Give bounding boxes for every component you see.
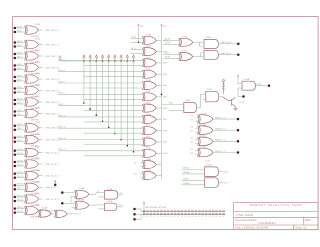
svg-text:BNK_SEL0_X: BNK_SEL0_X <box>45 30 59 32</box>
wire inputs IC7A <box>163 39 179 41</box>
wire grid row 10B <box>84 110 143 112</box>
svg-text:E0: E0 <box>191 120 193 122</box>
svg-text:IC1A: IC1A <box>35 23 40 26</box>
and gate IC8B <box>204 50 218 59</box>
wire grid row 11A <box>58 116 143 118</box>
and gate IC8A <box>204 36 218 48</box>
wire grid column 1 <box>83 61 85 103</box>
svg-text:IC4D: IC4D <box>35 205 40 207</box>
resistor R15 <box>192 211 194 212</box>
junction rail dot 2 <box>89 60 91 62</box>
svg-text:IC7A: IC7A <box>182 35 187 38</box>
wire output IC10A <box>255 85 268 87</box>
wire output IC11D <box>213 152 237 154</box>
wire grid row 6B <box>84 87 143 89</box>
wire input A of IC3C <box>16 150 25 152</box>
resistor R9 <box>171 211 173 212</box>
wire inputs IC12A <box>182 169 205 171</box>
junction rail dot 1 <box>83 60 85 62</box>
wire input B of IC4C <box>16 200 25 202</box>
svg-text:Sheet: 1/1: Sheet: 1/1 <box>295 227 307 230</box>
junction grid dot 6 <box>114 133 116 135</box>
xor gate IC2B <box>25 85 41 99</box>
wire input B of IC3D <box>16 165 25 167</box>
svg-text:RN1 RESNET 4K7 SEL: RN1 RESNET 4K7 SEL <box>145 207 167 209</box>
wire jog vertical <box>199 42 201 46</box>
wire G2 out <box>117 206 123 208</box>
wire G16 to E1 <box>39 210 40 212</box>
svg-text:74_08: 74_08 <box>76 199 81 201</box>
svg-text:IC12A: IC12A <box>206 164 212 167</box>
node pad B7 <box>14 103 16 105</box>
svg-text:ADR15: ADR15 <box>17 206 24 209</box>
wire grid row 7A <box>58 93 143 95</box>
svg-text:ADR14: ADR14 <box>17 194 24 197</box>
svg-text:IC4B: IC4B <box>35 181 40 183</box>
wire inputs IC11A <box>195 116 198 118</box>
wire output IC5H <box>156 118 161 120</box>
wire grid row 16B <box>84 144 143 146</box>
wire grid column 7 <box>120 61 122 140</box>
wire input B of IC3C <box>16 154 25 156</box>
xor gate IC1A <box>25 23 41 38</box>
label pin 3 <box>150 215 151 218</box>
node pad B10 <box>14 141 16 143</box>
svg-text:SEL11: SEL11 <box>17 164 24 166</box>
svg-text:IC5G: IC5G <box>146 103 151 105</box>
svg-text:IC5I: IC5I <box>146 125 150 127</box>
wire F2 to G2 second <box>98 208 105 210</box>
wire output IC5F <box>156 96 161 98</box>
svg-text:IC2C: IC2C <box>35 96 40 98</box>
svg-text:BNK_SL11_X: BNK_SL11_X <box>45 164 59 166</box>
power VCC stub connector <box>143 202 145 207</box>
svg-text:ROW_3: ROW_3 <box>58 70 64 72</box>
wire F2 inputs <box>72 202 75 204</box>
and gate G1 <box>104 188 117 199</box>
wire input A of IC2A <box>16 76 25 78</box>
svg-text:E1: E1 <box>191 131 193 133</box>
svg-text:BNK_SL13_X: BNK_SL13_X <box>45 187 59 189</box>
xor gate IC11B <box>198 124 213 134</box>
svg-text:ADR13: ADR13 <box>17 183 24 186</box>
wire VCC rail <box>60 60 136 62</box>
svg-text:FIRE: FIRE <box>257 84 262 86</box>
node pad A7 <box>14 99 16 101</box>
wire bus upper <box>141 210 225 212</box>
svg-text:ROW_7: ROW_7 <box>58 93 64 95</box>
xor gate IC4D <box>25 205 41 219</box>
svg-text:C-23-4B-05-B-1: C-23-4B-05-B-1 <box>258 222 276 225</box>
wire output IC5I <box>156 130 161 132</box>
resistor R17 <box>198 211 200 212</box>
or gate IC6B <box>142 170 156 180</box>
svg-text:IC2A: IC2A <box>35 72 40 75</box>
xor gate IC3C <box>25 147 41 161</box>
wire input B of IC2C <box>16 103 25 105</box>
resistor R20 <box>209 211 211 212</box>
xor gate IC4A <box>25 169 41 184</box>
wire output of IC2C <box>39 101 43 103</box>
svg-text:Document Number:: Document Number: <box>236 219 258 222</box>
wire grid row 4B <box>84 76 143 78</box>
node pad RES0 <box>237 118 239 120</box>
node pad RES2 <box>237 140 239 142</box>
svg-text:SEL15: SEL15 <box>17 211 24 213</box>
label pin 8 <box>167 215 168 218</box>
svg-text:74HC86N: 74HC86N <box>30 217 39 219</box>
node pad F1A <box>61 192 63 194</box>
svg-text:RESULT_2: RESULT_2 <box>215 140 226 142</box>
wire output of IC1D <box>39 67 43 69</box>
wire output IC5D <box>156 73 161 75</box>
svg-text:MEMORY SELECTING TERM: MEMORY SELECTING TERM <box>249 203 302 207</box>
wire input B of IC2D <box>16 115 25 117</box>
svg-text:ADR2: ADR2 <box>17 51 23 54</box>
svg-text:RESULT_1: RESULT_1 <box>215 129 226 131</box>
or gate F2 <box>75 200 89 210</box>
wire jog vertical 2 <box>200 53 202 57</box>
svg-text:WENA1: WENA1 <box>183 182 190 185</box>
resistor R3 <box>150 211 152 212</box>
power VCC symbol right <box>161 24 163 29</box>
svg-text:WSEL1: WSEL1 <box>183 179 189 181</box>
svg-text:ADR9: ADR9 <box>17 135 23 138</box>
node pad A6 <box>14 87 16 89</box>
wire grid column 2 <box>89 61 91 109</box>
svg-text:IC13A: IC13A <box>42 207 48 210</box>
node pad B4 <box>14 68 16 70</box>
resistor R1 <box>143 211 145 212</box>
label pin 21 <box>212 215 213 218</box>
svg-text:ADR8: ADR8 <box>17 123 23 126</box>
wire grid row 17A <box>58 150 143 152</box>
node pad B5 <box>14 80 16 82</box>
svg-text:BNK_SEL3_X: BNK_SEL3_X <box>45 67 59 69</box>
wire stub above P17 <box>54 180 56 183</box>
wire output of IC4A <box>39 175 43 177</box>
svg-text:T1 G4: T1 G4 <box>238 102 244 104</box>
resistor R21 <box>212 211 214 212</box>
wire output IC8B to pad <box>218 54 237 56</box>
svg-text:IC6B: IC6B <box>146 170 151 172</box>
xor gate IC11D <box>198 147 213 157</box>
or gate IC5D <box>142 69 156 79</box>
node pad CN_C <box>133 218 135 220</box>
junction grid dot 7 <box>120 139 122 141</box>
junction grid dot 9 <box>133 151 135 153</box>
resistor R18 <box>202 211 204 212</box>
wire inputs IC11C <box>195 138 198 140</box>
svg-text:IC3C: IC3C <box>35 147 40 149</box>
svg-text:IC5J: IC5J <box>146 136 150 138</box>
label pin 12 <box>181 215 182 218</box>
wire input IC10A <box>238 83 242 85</box>
node pad B16 <box>14 212 16 214</box>
or gate IC5K <box>142 148 156 158</box>
or gate IC6A <box>142 158 156 169</box>
power VCC stub 8 <box>126 55 129 61</box>
wire output IC11A <box>213 118 237 120</box>
wire inputs IC11D <box>195 150 198 152</box>
wire output IC5B <box>156 51 161 53</box>
wire output IC11C <box>213 140 237 142</box>
svg-text:MATCH_A: MATCH_A <box>221 41 231 44</box>
node pad RES3 <box>237 151 239 153</box>
junction rail dot 5 <box>108 60 110 62</box>
wire output IC5J <box>156 141 161 143</box>
wire output IC12B <box>218 182 223 184</box>
wire grid row 2B <box>84 64 143 66</box>
node pad A4 <box>14 64 16 66</box>
node pad A2 <box>14 41 16 43</box>
wire G1 out <box>118 194 123 196</box>
svg-text:MX10: MX10 <box>163 153 169 155</box>
svg-text:IC8A: IC8A <box>206 36 211 39</box>
xor gate IC3A <box>25 121 41 136</box>
wire grid row 8B <box>84 98 143 100</box>
svg-text:ROW_9: ROW_9 <box>58 104 64 106</box>
label pin 1 <box>143 215 144 218</box>
svg-text:ADR5: ADR5 <box>17 86 23 89</box>
junction rail dot 8 <box>127 60 129 62</box>
svg-text:IC15B: IC15B <box>107 201 113 203</box>
node pad A16 <box>14 208 16 210</box>
wire output of IC4D <box>39 210 43 212</box>
resistor R16 <box>195 211 197 212</box>
svg-text:IC15A: IC15A <box>107 188 113 191</box>
junction grid dot 4 <box>102 121 104 123</box>
wire output of IC4B <box>39 186 43 188</box>
wire grid row 5A <box>58 82 143 84</box>
and gate IC9B <box>206 89 219 102</box>
wire output IC6A <box>156 164 161 166</box>
wire pads to bus <box>136 208 141 210</box>
or gate IC5C <box>142 57 156 67</box>
wire output of IC2B <box>39 90 43 92</box>
power VCC stub 1 <box>83 55 86 61</box>
title block <box>234 203 318 230</box>
svg-text:D1: D1 <box>191 127 193 129</box>
wire IC7A to IC8A <box>193 41 203 43</box>
svg-text:BNK_SL14_X: BNK_SL14_X <box>45 199 59 201</box>
power VCC above IC10A input <box>237 75 239 80</box>
node pad B3 <box>14 57 16 59</box>
node pad FIRE <box>268 85 270 87</box>
svg-text:IC11A: IC11A <box>201 112 207 115</box>
wire input B of IC1A <box>16 31 25 33</box>
svg-text:ROW_5: ROW_5 <box>58 81 64 83</box>
resistor R8 <box>167 211 169 212</box>
wire F1 to G1 second <box>98 196 104 198</box>
svg-text:IC5B: IC5B <box>146 46 151 48</box>
node pad B1 <box>14 31 16 33</box>
power VCC stub 2 <box>89 55 92 61</box>
label pin 6 <box>160 215 161 218</box>
svg-text:E2: E2 <box>191 142 193 144</box>
wire input A of IC2B <box>16 88 25 90</box>
wire bus lower <box>143 213 225 215</box>
node pad A10 <box>14 137 16 139</box>
resistor R2 <box>147 211 149 212</box>
svg-text:ADR11: ADR11 <box>17 159 24 162</box>
and gate IC10A <box>242 78 255 90</box>
or gate F1 <box>75 187 89 198</box>
label pin 7 <box>164 215 165 218</box>
antenna flag symbol <box>222 80 225 95</box>
resistor R19 <box>205 211 207 212</box>
xor gate IC1B <box>25 39 41 53</box>
svg-text:IC9B: IC9B <box>207 89 212 91</box>
svg-text:TITLE: THING: TITLE: THING <box>236 213 253 217</box>
node pad F1B <box>61 202 63 204</box>
wire output IC5C <box>156 62 161 64</box>
svg-text:IC6A: IC6A <box>146 158 151 161</box>
xor gate E1 <box>38 207 51 218</box>
wire output of IC1A <box>39 29 43 31</box>
svg-text:IC11C: IC11C <box>201 136 207 138</box>
svg-text:IC11D: IC11D <box>201 147 207 149</box>
svg-text:MATCH_B: MATCH_B <box>221 52 231 55</box>
node pad B11 <box>14 154 16 156</box>
svg-text:SUM_LO: SUM_LO <box>73 214 82 216</box>
or gate IC5F <box>142 91 156 101</box>
svg-text:IC3A: IC3A <box>35 121 40 124</box>
wire input IC5A <box>131 37 144 39</box>
svg-text:SEL13: SEL13 <box>17 188 24 190</box>
wire input A of IC1B <box>16 42 25 44</box>
wire input IC9B second <box>203 98 206 100</box>
xor gate IC2C <box>25 96 41 110</box>
power VCC stub 9 <box>132 55 135 61</box>
wire input B of IC4D <box>16 212 25 214</box>
label pin 17 <box>198 215 199 218</box>
wire grid column 3 <box>95 61 97 115</box>
svg-text:ROW_13: ROW_13 <box>58 127 65 129</box>
svg-text:WENA0: WENA0 <box>183 171 190 174</box>
node pad B2 <box>14 45 16 47</box>
svg-text:IC10A: IC10A <box>244 78 250 81</box>
wire output of IC1B <box>39 44 43 46</box>
svg-text:IC3D: IC3D <box>35 158 40 160</box>
wire IC7B to IC8B <box>193 56 203 58</box>
wire inputs IC9A <box>162 104 184 106</box>
junction rail dot 4 <box>102 60 104 62</box>
node pad A3 <box>14 53 16 55</box>
wire E1 to E2 <box>51 213 54 215</box>
svg-text:IC1C: IC1C <box>35 50 40 52</box>
label pin 22 <box>216 215 217 218</box>
node pad B15 <box>14 200 16 202</box>
svg-text:ADR12: ADR12 <box>17 171 24 174</box>
node pad CN_B <box>133 213 135 215</box>
junction rail dot 6 <box>114 60 116 62</box>
node pad RES1 <box>237 129 239 131</box>
svg-text:BNK_SL10_X: BNK_SL10_X <box>45 153 59 155</box>
wire output IC5G <box>156 107 161 109</box>
svg-text:SEL14: SEL14 <box>17 199 24 201</box>
junction rail dot 3 <box>96 60 98 62</box>
resistor R14 <box>188 211 190 212</box>
wire E2 out <box>67 213 72 215</box>
resistor R11 <box>178 211 180 212</box>
resistor R13 <box>185 211 187 212</box>
label pin 14 <box>188 215 189 218</box>
wire output of IC2D <box>39 113 43 115</box>
resistor R5 <box>157 211 159 212</box>
or gate IC5H <box>142 114 156 124</box>
svg-text:IC4C: IC4C <box>35 193 40 195</box>
wire inputs IC6B <box>140 173 143 175</box>
svg-text:IC5K: IC5K <box>146 148 151 150</box>
junction rail dot 7 <box>120 60 122 62</box>
wire input B of IC2B <box>16 92 25 94</box>
svg-text:SEL10: SEL10 <box>17 153 24 155</box>
wire output IC5K <box>156 152 161 154</box>
xor gate IC4B <box>25 181 41 195</box>
xor gate IC4C <box>25 193 41 207</box>
svg-text:SEL12: SEL12 <box>17 176 24 178</box>
node pad B12 <box>14 165 16 167</box>
wire output IC9B <box>218 96 222 98</box>
node pad B13 <box>14 177 16 179</box>
or gate IC5I <box>142 125 156 135</box>
xor gate IC2A <box>25 72 41 87</box>
junction grid dot 5 <box>108 127 110 129</box>
node pad A1 <box>14 27 16 29</box>
junction grid dot 8 <box>127 145 129 147</box>
wire output IC5E <box>156 85 161 87</box>
label pin 15 <box>192 215 193 218</box>
transistor Q1 <box>223 97 236 107</box>
node pad B9 <box>14 129 16 131</box>
wire output IC8A to pad <box>218 43 237 45</box>
wire inputs IC6A <box>140 162 143 164</box>
wire input A of IC4C <box>16 196 25 198</box>
svg-text:IC5A: IC5A <box>146 34 151 37</box>
xor gate E2 <box>54 210 67 217</box>
junction grid dot 3 <box>96 114 98 116</box>
svg-text:RESULT_3: RESULT_3 <box>215 151 226 153</box>
wire input A of IC1D <box>16 65 25 67</box>
xor gate IC11C <box>198 136 213 146</box>
wire input A of IC3B <box>16 137 25 139</box>
label pin 5 <box>157 215 158 218</box>
svg-text:ROW_1: ROW_1 <box>58 59 64 61</box>
junction grid dot 1 <box>83 102 85 104</box>
resistor R7 <box>164 211 166 212</box>
resistor R24 <box>223 211 225 212</box>
svg-text:K1: K1 <box>97 191 99 193</box>
label pin 4 <box>154 215 155 218</box>
wire inputs IC7B <box>163 54 179 56</box>
label pin 23 <box>219 215 220 218</box>
wire F2 to G2 <box>89 204 96 206</box>
label pin 20 <box>209 215 210 218</box>
wire grid row 3A <box>58 71 143 73</box>
svg-text:IC4A: IC4A <box>35 169 40 172</box>
svg-text:IC1D: IC1D <box>35 62 40 64</box>
label pin 11 <box>178 215 179 218</box>
wire input A of IC4B <box>16 184 25 186</box>
xor gate IC11A <box>198 112 213 123</box>
wire input B of IC3B <box>16 141 25 143</box>
node pad A5 <box>14 76 16 78</box>
svg-text:ADR3: ADR3 <box>17 63 23 66</box>
wire IC9A out to IC9B in <box>196 107 200 109</box>
or gate IC5G <box>142 103 156 113</box>
svg-text:IC7B: IC7B <box>182 51 187 53</box>
